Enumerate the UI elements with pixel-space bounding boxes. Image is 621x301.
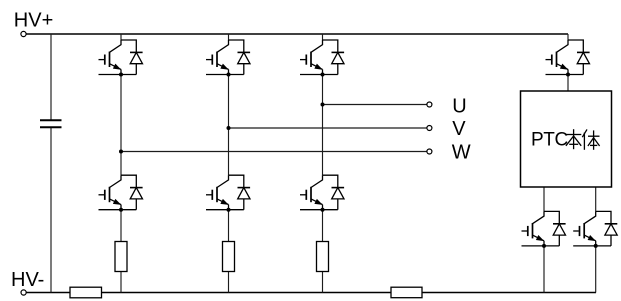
svg-text:U: U [452,95,466,117]
svg-text:PTC: PTC [531,129,568,150]
svg-text:V: V [452,118,466,140]
svg-text:HV+: HV+ [14,9,53,31]
svg-text:W: W [452,141,471,163]
svg-text:HV-: HV- [11,269,44,291]
